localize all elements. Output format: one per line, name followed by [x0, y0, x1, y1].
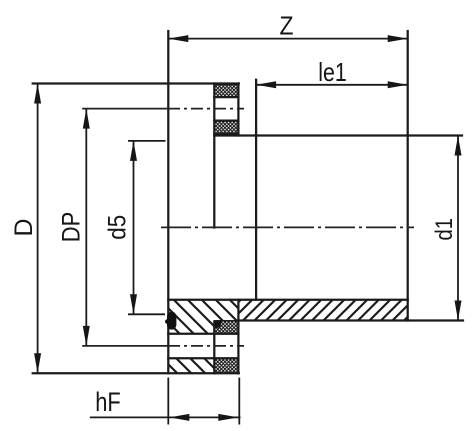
bolt hole edge top lower — [214, 119, 238, 121]
pipe bottom wall hatched section — [238, 300, 407, 321]
flange top edge + D top extension — [33, 82, 239, 84]
flange bottom edge + D bottom extension — [33, 372, 239, 374]
dim le1 — [256, 84, 408, 86]
centerlines — [82, 109, 414, 346]
flange left face — [167, 31, 169, 373]
metal insert block top2 — [214, 121, 238, 134]
dim d1 — [457, 136, 459, 321]
pipe OD bottom + d1 extension — [238, 319, 463, 321]
hF extension right — [238, 378, 240, 425]
collar/ring boundary bottom — [213, 322, 215, 374]
collar body hatched section — [168, 300, 238, 334]
dim D — [37, 84, 39, 374]
fillet blob — [214, 321, 221, 329]
ring right face bottom — [237, 321, 239, 374]
ring bore edge top — [214, 133, 238, 135]
svg-text:Z: Z — [280, 10, 294, 40]
svg-text:d5: d5 — [104, 215, 132, 240]
main axis centerline — [161, 226, 414, 228]
weld joint line — [237, 300, 239, 321]
svg-text:le1: le1 — [318, 57, 347, 87]
bolt circle centerline top + DP extension — [82, 108, 168, 110]
collar hub bottom / hole band top — [168, 333, 238, 335]
ring right face top — [237, 84, 239, 136]
bolt circle centerline bottom + DP extension — [82, 345, 168, 347]
dim Z — [168, 38, 407, 40]
d5 extension top — [128, 140, 166, 142]
o-ring seal — [167, 312, 176, 330]
svg-text:d1: d1 — [431, 218, 458, 241]
collar/ring boundary top — [213, 84, 215, 228]
metal insert block bottom2 — [214, 358, 238, 373]
hF extension left — [167, 378, 169, 425]
dim DP — [85, 109, 87, 346]
pipe OD top + d1 extension — [214, 134, 462, 136]
d5 extension bottom — [128, 313, 165, 315]
hole band bottom — [168, 357, 238, 359]
svg-text:DP: DP — [57, 212, 85, 243]
outlines — [33, 31, 463, 373]
svg-text:hF: hF — [95, 387, 121, 417]
metal insert block bottom1 — [214, 321, 238, 334]
pipe bore bottom — [168, 299, 407, 301]
socket depth line le1 — [255, 80, 257, 300]
flange bottom ring hatched section — [168, 358, 214, 373]
bolt hole edge top upper — [214, 96, 238, 98]
metal insert block top1 — [214, 84, 238, 97]
pipe end face + Z right extension — [407, 31, 409, 321]
dim hF — [90, 416, 241, 418]
svg-text:D: D — [10, 219, 38, 237]
dim d5 — [133, 141, 135, 314]
